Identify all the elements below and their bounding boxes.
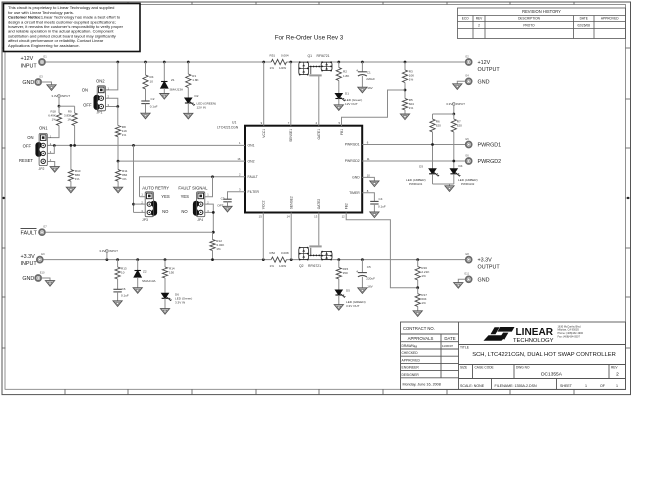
svg-text:10: 10 xyxy=(121,270,125,274)
svg-text:Q2: Q2 xyxy=(299,264,304,268)
svg-text:JP4: JP4 xyxy=(197,218,203,222)
svg-text:E1: E1 xyxy=(44,54,48,58)
svg-text:1.8K: 1.8K xyxy=(192,78,198,82)
svg-text:RFI6721: RFI6721 xyxy=(317,54,330,58)
svg-text:GATE1: GATE1 xyxy=(317,129,321,140)
svg-text:APPROVED: APPROVED xyxy=(402,358,421,362)
svg-text:FILENAME: 1355A-2.DSN: FILENAME: 1355A-2.DSN xyxy=(495,384,538,388)
svg-text:10: 10 xyxy=(367,173,371,177)
svg-text:1%: 1% xyxy=(67,118,72,122)
svg-text:INPUT: INPUT xyxy=(456,102,465,106)
svg-text:PWRGD2: PWRGD2 xyxy=(478,159,502,165)
svg-text:OUTPUT: OUTPUT xyxy=(478,265,501,271)
svg-text:12V IN: 12V IN xyxy=(197,106,206,110)
svg-text:10: 10 xyxy=(150,79,154,83)
svg-text:150: 150 xyxy=(169,270,174,274)
svg-text:Monday, June 16, 2008: Monday, June 16, 2008 xyxy=(403,383,441,387)
svg-text:Applications Engineering for a: Applications Engineering for assistance. xyxy=(8,43,80,48)
svg-text:E3: E3 xyxy=(40,74,44,78)
svg-text:1: 1 xyxy=(585,384,587,388)
svg-text:Q1: Q1 xyxy=(308,54,313,58)
svg-text:LTC4221CGN: LTC4221CGN xyxy=(217,125,239,129)
svg-text:D5: D5 xyxy=(346,289,350,293)
svg-text:Fax: (408)434-0507: Fax: (408)434-0507 xyxy=(558,335,581,339)
svg-text:0.1uF: 0.1uF xyxy=(150,105,158,109)
svg-text:CONTRACT NO.: CONTRACT NO. xyxy=(403,326,435,331)
svg-text:RFI6721: RFI6721 xyxy=(308,264,321,268)
svg-text:16: 16 xyxy=(237,157,241,161)
svg-text:DESCRIPTION: DESCRIPTION xyxy=(518,17,540,21)
svg-text:13: 13 xyxy=(314,215,318,219)
svg-text:DATE: DATE xyxy=(580,17,588,21)
svg-text:YES: YES xyxy=(181,194,190,199)
svg-text:FB1: FB1 xyxy=(340,129,344,135)
svg-text:PWRGD1: PWRGD1 xyxy=(478,143,502,149)
svg-text:15: 15 xyxy=(259,215,263,219)
svg-text:1%: 1% xyxy=(122,133,127,137)
svg-text:220uF: 220uF xyxy=(366,77,375,81)
svg-text:PWRGD1: PWRGD1 xyxy=(409,182,423,186)
svg-text:620: 620 xyxy=(457,123,462,127)
svg-text:E9: E9 xyxy=(41,252,45,256)
svg-text:D3: D3 xyxy=(419,165,423,169)
svg-text:SIZE: SIZE xyxy=(460,365,467,369)
svg-text:+3.3V: +3.3V xyxy=(21,254,36,260)
svg-text:GND: GND xyxy=(478,277,490,283)
svg-text:220uF: 220uF xyxy=(366,277,375,281)
svg-text:CHECKED: CHECKED xyxy=(402,351,419,355)
svg-text:C1: C1 xyxy=(367,71,371,75)
svg-text:VCC1: VCC1 xyxy=(262,129,266,138)
svg-text:12: 12 xyxy=(342,215,346,219)
svg-text:CAGE CODE: CAGE CODE xyxy=(475,365,494,369)
svg-text:JP3: JP3 xyxy=(142,218,148,222)
svg-text:GND: GND xyxy=(22,276,34,282)
svg-text:11: 11 xyxy=(367,157,370,161)
svg-text:DRAWN:: DRAWN: xyxy=(402,344,415,348)
svg-text:NO: NO xyxy=(162,209,169,214)
svg-text:E8: E8 xyxy=(466,252,470,256)
svg-text:PWRGD1: PWRGD1 xyxy=(345,143,360,147)
svg-text:SCH, LTC4221CGN, DUAL HOT SWAP: SCH, LTC4221CGN, DUAL HOT SWAP CONTROLLE… xyxy=(472,352,616,358)
svg-text:GND: GND xyxy=(352,176,360,180)
svg-text:PWRGD2: PWRGD2 xyxy=(345,159,360,163)
svg-text:1: 1 xyxy=(616,384,618,388)
svg-text:REV: REV xyxy=(476,17,483,21)
svg-text:ON1: ON1 xyxy=(248,144,255,148)
svg-text:3.3V OUT: 3.3V OUT xyxy=(346,304,360,308)
svg-text:ON1: ON1 xyxy=(39,126,48,131)
svg-text:E10: E10 xyxy=(40,270,45,274)
svg-text:D1: D1 xyxy=(345,92,349,96)
svg-text:AUTO RETRY: AUTO RETRY xyxy=(142,185,169,190)
svg-text:1.8K: 1.8K xyxy=(343,74,349,78)
svg-text:E4: E4 xyxy=(466,74,470,78)
svg-text:OFF: OFF xyxy=(23,143,32,148)
svg-text:APPROVED: APPROVED xyxy=(601,17,619,21)
svg-text:MI: MI xyxy=(414,344,417,348)
svg-text:VCC2: VCC2 xyxy=(262,200,266,209)
svg-text:LINEAR: LINEAR xyxy=(516,327,554,338)
svg-text:R51: R51 xyxy=(270,54,276,58)
svg-text:OUTPUT: OUTPUT xyxy=(478,67,501,73)
svg-text:INPUT: INPUT xyxy=(21,261,38,267)
svg-text:E6: E6 xyxy=(466,153,470,157)
svg-text:1%: 1% xyxy=(421,301,426,305)
svg-text:PWRGD2: PWRGD2 xyxy=(461,182,475,186)
svg-text:+12V: +12V xyxy=(21,56,34,62)
svg-text:ON2: ON2 xyxy=(96,79,105,84)
svg-text:3.3V IN: 3.3V IN xyxy=(175,301,185,305)
svg-text:02/26/08: 02/26/08 xyxy=(577,23,590,27)
svg-text:620: 620 xyxy=(436,123,441,127)
svg-text:RESET: RESET xyxy=(19,158,33,163)
svg-text:INPUT: INPUT xyxy=(109,249,118,253)
svg-text:Phone: (408)432-1900: Phone: (408)432-1900 xyxy=(558,331,584,335)
svg-text:1%: 1% xyxy=(122,177,127,181)
svg-text:2: 2 xyxy=(478,23,480,27)
svg-text:R52: R52 xyxy=(270,251,276,255)
svg-text:FB2: FB2 xyxy=(345,203,349,209)
svg-text:C2: C2 xyxy=(151,97,155,101)
svg-text:TIMER: TIMER xyxy=(349,191,360,195)
svg-text:OF: OF xyxy=(600,384,606,388)
svg-text:1%: 1% xyxy=(421,274,426,278)
svg-text:+12V: +12V xyxy=(478,60,491,66)
svg-text:FAULT SIGNAL: FAULT SIGNAL xyxy=(178,185,208,190)
svg-text:1/2W: 1/2W xyxy=(279,66,286,70)
svg-text:14: 14 xyxy=(287,215,291,219)
svg-text:SMAJ13A: SMAJ13A xyxy=(142,279,157,283)
svg-text:Milpitas, CA 95035: Milpitas, CA 95035 xyxy=(558,328,580,332)
svg-text:C5: C5 xyxy=(367,265,371,269)
svg-text:ECO: ECO xyxy=(462,17,469,21)
svg-text:DWG NO: DWG NO xyxy=(516,365,530,369)
svg-text:ON2: ON2 xyxy=(248,159,255,163)
svg-text:INPUT: INPUT xyxy=(21,63,38,69)
svg-text:JP2: JP2 xyxy=(39,167,45,171)
svg-text:1%: 1% xyxy=(216,247,221,251)
svg-text:D4: D4 xyxy=(459,164,463,168)
svg-text:16V: 16V xyxy=(367,86,373,90)
svg-text:JP1: JP1 xyxy=(97,111,103,115)
svg-text:GND: GND xyxy=(22,80,34,86)
svg-text:SCALE: NONE: SCALE: NONE xyxy=(460,384,485,388)
svg-text:1630 McCarthy Blvd.: 1630 McCarthy Blvd. xyxy=(558,324,582,328)
svg-text:DATE: DATE xyxy=(444,336,455,341)
svg-text:FILTER: FILTER xyxy=(248,190,260,194)
svg-text:OPT: OPT xyxy=(217,204,223,208)
svg-text:U1: U1 xyxy=(232,121,236,125)
svg-text:0.004: 0.004 xyxy=(281,54,289,58)
svg-text:E11: E11 xyxy=(465,272,470,276)
svg-text:GND: GND xyxy=(478,79,490,85)
svg-text:C4: C4 xyxy=(379,197,383,201)
svg-text:1/2W: 1/2W xyxy=(279,264,286,268)
svg-text:11/06/07: 11/06/07 xyxy=(442,344,453,348)
svg-text:ON: ON xyxy=(27,135,33,140)
svg-text:+3.3V: +3.3V xyxy=(478,257,493,263)
svg-text:12V OUT: 12V OUT xyxy=(345,102,358,106)
svg-text:TITLE: TITLE xyxy=(460,346,470,350)
svg-text:ON: ON xyxy=(82,87,88,92)
svg-text:REVISION HISTORY: REVISION HISTORY xyxy=(522,9,561,14)
svg-text:Z1: Z1 xyxy=(171,78,175,82)
svg-text:Z2: Z2 xyxy=(143,270,147,274)
svg-text:E5: E5 xyxy=(466,137,470,141)
svg-text:PROTO: PROTO xyxy=(523,23,535,27)
svg-text:1%: 1% xyxy=(409,78,414,82)
svg-text:SENSE2: SENSE2 xyxy=(290,196,294,209)
svg-text:ENGINEER: ENGINEER xyxy=(402,366,420,370)
svg-text:0.1uF: 0.1uF xyxy=(378,205,386,209)
svg-text:FAULT: FAULT xyxy=(21,230,38,236)
svg-text:1%: 1% xyxy=(270,66,275,70)
svg-text:2: 2 xyxy=(616,372,619,378)
svg-text:GATE2: GATE2 xyxy=(317,199,321,210)
svg-text:1%: 1% xyxy=(52,118,57,122)
svg-text:C6: C6 xyxy=(122,287,126,291)
svg-text:1%: 1% xyxy=(270,264,275,268)
svg-text:150: 150 xyxy=(343,271,348,275)
svg-text:FAULT: FAULT xyxy=(248,175,258,179)
svg-text:1%: 1% xyxy=(75,177,80,181)
svg-text:INPUT: INPUT xyxy=(61,94,70,98)
svg-text:YES: YES xyxy=(161,194,170,199)
svg-text:1%: 1% xyxy=(409,106,414,110)
svg-text:E2: E2 xyxy=(466,54,470,58)
svg-text:SENSE1: SENSE1 xyxy=(289,129,293,142)
svg-text:E7: E7 xyxy=(44,225,48,229)
svg-text:DC1355A: DC1355A xyxy=(541,372,563,378)
svg-text:SMAJ13A: SMAJ13A xyxy=(170,88,185,92)
svg-text:DESIGNER: DESIGNER xyxy=(402,373,420,377)
svg-text:TECHNOLOGY: TECHNOLOGY xyxy=(513,338,554,344)
svg-text:D2: D2 xyxy=(195,94,199,98)
svg-text:SHEET: SHEET xyxy=(560,384,573,388)
svg-text:For Re-Order Use Rev 3: For Re-Order Use Rev 3 xyxy=(275,35,344,42)
svg-text:REV: REV xyxy=(611,365,618,369)
svg-text:C3: C3 xyxy=(221,197,225,201)
svg-text:0.1uF: 0.1uF xyxy=(121,294,129,298)
svg-text:NO: NO xyxy=(181,209,188,214)
svg-text:16V: 16V xyxy=(367,285,373,289)
svg-text:APPROVALS: APPROVALS xyxy=(408,336,434,341)
svg-text:OFF: OFF xyxy=(83,102,92,107)
svg-text:0.008: 0.008 xyxy=(281,251,289,255)
